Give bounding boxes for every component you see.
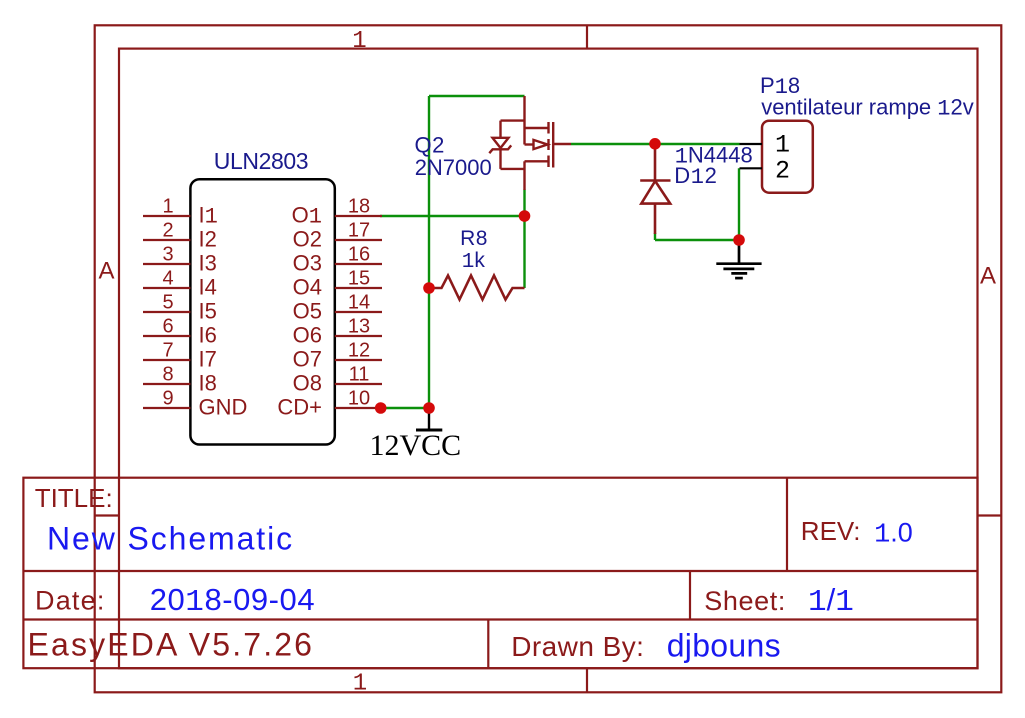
svg-text:O7: O7 xyxy=(293,347,322,372)
svg-text:O8: O8 xyxy=(293,371,322,396)
svg-text:16: 16 xyxy=(348,244,370,266)
svg-text:I6: I6 xyxy=(199,323,217,348)
svg-text:O6: O6 xyxy=(293,323,322,348)
svg-text:I7: I7 xyxy=(199,347,217,372)
svg-text:D12: D12 xyxy=(674,163,717,190)
svg-text:Date:: Date: xyxy=(35,586,106,616)
svg-text:EasyEDA V5.7.26: EasyEDA V5.7.26 xyxy=(28,627,315,663)
svg-text:O3: O3 xyxy=(293,251,322,276)
svg-text:2N7000: 2N7000 xyxy=(415,155,492,180)
svg-text:O4: O4 xyxy=(293,275,322,300)
svg-text:GND: GND xyxy=(199,395,248,420)
svg-text:A: A xyxy=(980,263,996,290)
svg-text:CD+: CD+ xyxy=(277,395,322,420)
svg-text:I5: I5 xyxy=(199,299,217,324)
svg-text:5: 5 xyxy=(162,292,173,314)
svg-text:11: 11 xyxy=(349,364,370,386)
svg-text:ULN2803: ULN2803 xyxy=(214,148,308,174)
svg-text:6: 6 xyxy=(162,316,173,338)
svg-text:1: 1 xyxy=(162,196,173,218)
svg-text:TITLE:: TITLE: xyxy=(35,483,113,513)
svg-text:O1: O1 xyxy=(292,203,322,230)
svg-text:2018-09-04: 2018-09-04 xyxy=(150,582,315,620)
svg-text:I3: I3 xyxy=(199,251,217,276)
svg-text:7: 7 xyxy=(162,340,173,362)
svg-text:18: 18 xyxy=(348,196,370,218)
svg-text:A: A xyxy=(98,258,114,285)
svg-text:R8: R8 xyxy=(460,227,488,250)
svg-text:1: 1 xyxy=(353,670,367,697)
svg-text:1: 1 xyxy=(352,28,366,55)
svg-text:djbouns: djbouns xyxy=(667,628,781,664)
svg-text:New Schematic: New Schematic xyxy=(47,521,294,557)
svg-text:1/1: 1/1 xyxy=(808,582,854,620)
svg-text:9: 9 xyxy=(162,388,173,410)
svg-text:ventilateur rampe 12v: ventilateur rampe 12v xyxy=(761,95,974,122)
svg-text:2: 2 xyxy=(162,220,173,242)
svg-text:Sheet:: Sheet: xyxy=(704,586,786,616)
svg-text:1k: 1k xyxy=(462,249,486,274)
svg-text:10: 10 xyxy=(348,388,370,410)
svg-text:O2: O2 xyxy=(293,227,322,252)
svg-text:REV:: REV: xyxy=(801,516,861,546)
svg-text:I1: I1 xyxy=(199,203,218,230)
svg-text:I4: I4 xyxy=(199,275,217,300)
svg-text:I2: I2 xyxy=(199,227,217,252)
svg-text:1: 1 xyxy=(775,131,790,160)
svg-text:I8: I8 xyxy=(199,371,217,396)
svg-text:17: 17 xyxy=(348,220,370,242)
svg-text:12: 12 xyxy=(348,340,370,362)
svg-text:14: 14 xyxy=(348,292,370,314)
svg-text:3: 3 xyxy=(162,244,173,266)
svg-text:15: 15 xyxy=(348,268,370,290)
svg-text:4: 4 xyxy=(162,268,173,290)
svg-text:12VCC: 12VCC xyxy=(370,429,462,462)
svg-text:13: 13 xyxy=(348,316,370,338)
svg-text:1.0: 1.0 xyxy=(874,518,913,551)
svg-text:Drawn By:: Drawn By: xyxy=(511,631,644,662)
svg-text:2: 2 xyxy=(775,157,790,186)
svg-text:O5: O5 xyxy=(293,299,322,324)
svg-text:8: 8 xyxy=(162,364,173,386)
